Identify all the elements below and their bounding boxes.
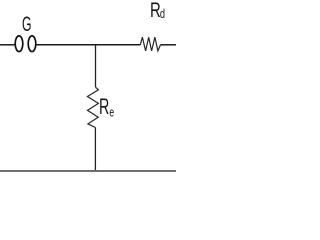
label Re [99, 96, 114, 119]
label Rd [150, 0, 165, 21]
node junction vertical wire down from top wire [95, 45, 97, 87]
ground rail bottom wire [0, 170, 176, 172]
wire from generator to resistor Rd [36, 44, 140, 46]
wire from resistor Re down to bottom rail [94, 128, 96, 171]
generator G left ellipse [15, 36, 23, 52]
label G [22, 14, 31, 35]
wire from resistor Rd to right edge [161, 44, 177, 46]
wire left segment from edge to generator [0, 44, 15, 46]
resistor Re zigzag [87, 87, 98, 127]
resistor Rd zigzag [140, 37, 160, 51]
generator G right ellipse [28, 36, 36, 52]
